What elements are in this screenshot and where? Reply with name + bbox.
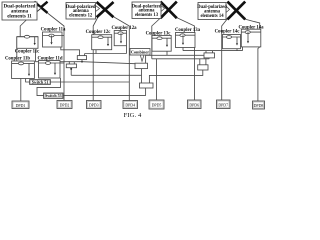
combiner D — [66, 64, 76, 68]
wire G3 left feed with jog to DPD5 — [152, 18, 161, 59]
wire G1 left lower to DPD1 — [20, 79, 22, 102]
coupler 11a — [41, 28, 66, 47]
switch 51 — [30, 80, 51, 85]
wire combiner D out — [70, 68, 72, 76]
combiner F — [140, 83, 154, 88]
svg-text:Combiner: Combiner — [131, 50, 149, 55]
wire G3 right feed to DPD6 — [177, 18, 195, 101]
wire switch51 right bus — [50, 81, 129, 83]
svg-text:FIG. 4: FIG. 4 — [124, 112, 142, 119]
wire G2 right feed to DPD4 — [114, 17, 129, 101]
wire G1 left edge down 11c to 11b — [16, 37, 18, 64]
svg-text:DPD8: DPD8 — [254, 104, 264, 108]
antenna X2 — [97, 2, 114, 17]
coupler 14a — [238, 26, 264, 47]
svg-text:elements 13: elements 13 — [135, 13, 159, 18]
coupler 11b — [5, 57, 34, 79]
DPD3 — [87, 101, 102, 109]
wire switch53 right bus — [63, 95, 146, 97]
antenna X4 — [227, 2, 245, 20]
wire combiner C out — [81, 60, 83, 62]
svg-text:elements 12: elements 12 — [69, 14, 93, 19]
svg-text:DPD4: DPD4 — [125, 104, 135, 108]
label callout: dual-polarized antenna elements 13 — [132, 2, 165, 19]
wire combiner F out — [145, 88, 147, 96]
wire combiner D top pins — [69, 61, 74, 64]
svg-text:DPD2: DPD2 — [60, 104, 70, 108]
svg-text:Coupler 11c: Coupler 11c — [15, 49, 40, 54]
label callout: dual-polarized antenna elements 14 — [197, 3, 229, 20]
wire combiner E out to combiner F left pin — [141, 69, 143, 83]
wire bus to combiner A top pins — [183, 47, 243, 53]
svg-text:Coupler 11b: Coupler 11b — [5, 57, 30, 62]
label callout: dual-polarized antenna elements 11 — [2, 2, 41, 20]
DPD1 — [12, 101, 29, 109]
wire line into combiner A left side — [146, 51, 204, 63]
svg-text:Coupler 12c: Coupler 12c — [86, 30, 112, 35]
svg-text:Coupler 14a: Coupler 14a — [238, 26, 264, 31]
coupler 12a — [111, 26, 137, 46]
svg-text:Coupler 11a: Coupler 11a — [41, 28, 66, 33]
coupler 13a — [175, 28, 201, 48]
svg-text:Coupler 14c: Coupler 14c — [215, 30, 241, 35]
combiner B — [198, 65, 208, 70]
antenna X3 — [160, 2, 176, 19]
combiner C — [77, 56, 86, 60]
svg-text:DPD5: DPD5 — [152, 104, 162, 108]
coupler 12c — [86, 30, 112, 50]
coupler 14c — [215, 30, 241, 49]
wire G1 left feed — [20, 13, 34, 37]
svg-text:DPD7: DPD7 — [218, 104, 228, 108]
wire 11a coupled out to combiner C left pin — [61, 47, 80, 56]
wire collector line y58.8 with A out and B pins and DPD5 drop — [152, 58, 209, 100]
svg-text:Coupler 12a: Coupler 12a — [111, 26, 137, 31]
switch 53 — [44, 93, 63, 98]
wire 11d through-line extension — [60, 62, 64, 64]
wire 11c coupled out down to bus B1 — [35, 50, 37, 62]
label callout: dual-polarized antenna elements 12 — [66, 3, 100, 20]
antenna X1 — [34, 2, 47, 13]
wire combiner B out to combiner F right pin — [149, 70, 202, 83]
svg-text:DPD3: DPD3 — [89, 104, 99, 108]
wire G1 right feed to DPD2 — [48, 13, 65, 101]
DPD2 — [57, 101, 72, 109]
svg-text:Coupler 13a: Coupler 13a — [175, 28, 201, 33]
wire 11d out to switch53 — [37, 78, 61, 96]
svg-text:Coupler 11d: Coupler 11d — [37, 57, 62, 62]
svg-text:Switch 53: Switch 53 — [45, 93, 62, 98]
wire G4 right feed to DPD8 — [245, 19, 260, 101]
wire 11a through-line extension — [62, 35, 64, 37]
svg-text:DPD1: DPD1 — [16, 104, 26, 108]
wire G2 left feed to DPD3 — [93, 16, 98, 101]
DPD4 — [123, 101, 138, 109]
coupler 11d — [37, 57, 62, 78]
wire bus B1 — [36, 62, 136, 64]
wire 11b out to switch51 — [26, 79, 30, 83]
DPD5 — [149, 100, 164, 109]
svg-text:Coupler 13c: Coupler 13c — [146, 31, 172, 36]
svg-text:DPD6: DPD6 — [189, 104, 199, 108]
DPD6 — [188, 100, 202, 109]
coupler 11c — [15, 35, 40, 54]
wire bus B2 — [71, 74, 141, 76]
svg-text:Switch 51: Switch 51 — [32, 80, 49, 85]
wire G4 left feed to DPD7 — [222, 18, 228, 100]
coupler 13c — [146, 31, 172, 51]
svg-text:elements 14: elements 14 — [200, 14, 224, 19]
svg-text:elements 11: elements 11 — [7, 14, 32, 19]
wire 12c coupled out to combiner C right pin — [85, 46, 127, 56]
combiner E — [135, 63, 148, 68]
combiner A — [204, 53, 215, 58]
DPD7 — [217, 100, 231, 109]
label callout: combiner — [130, 49, 150, 62]
DPD8 — [253, 101, 265, 109]
